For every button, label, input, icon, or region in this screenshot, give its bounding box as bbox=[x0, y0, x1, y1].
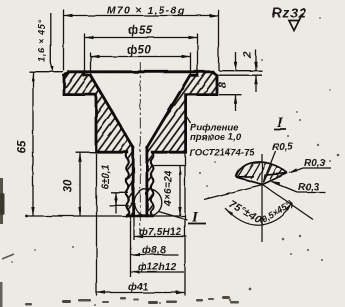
svg-text:ф12h12: ф12h12 bbox=[138, 261, 177, 273]
svg-text:R0,3: R0,3 bbox=[298, 182, 320, 193]
svg-text:ф55: ф55 bbox=[128, 25, 153, 37]
svg-text:ф8,8: ф8,8 bbox=[142, 244, 166, 256]
svg-text:R0,5: R0,5 bbox=[272, 142, 294, 153]
svg-text:прямое 1,0: прямое 1,0 bbox=[190, 132, 242, 143]
svg-text:I: I bbox=[276, 115, 284, 131]
svg-text:Rz32: Rz32 bbox=[272, 6, 307, 21]
svg-text:ГОСТ21474-75: ГОСТ21474-75 bbox=[189, 148, 255, 159]
svg-text:R0,3: R0,3 bbox=[304, 158, 326, 169]
svg-text:ф50: ф50 bbox=[127, 45, 152, 57]
svg-text:M70 × 1,5-8g: M70 × 1,5-8g bbox=[107, 5, 185, 17]
svg-text:30: 30 bbox=[63, 179, 75, 192]
svg-text:ф41: ф41 bbox=[128, 281, 148, 293]
svg-text:4×6=24: 4×6=24 bbox=[163, 170, 174, 207]
svg-text:65: 65 bbox=[17, 140, 29, 153]
svg-text:8: 8 bbox=[217, 81, 229, 88]
svg-text:ф7,5H12: ф7,5H12 bbox=[139, 226, 182, 238]
svg-text:2: 2 bbox=[242, 52, 254, 59]
svg-text:6±0,1: 6±0,1 bbox=[101, 164, 112, 189]
svg-text:1,6 × 45°: 1,6 × 45° bbox=[37, 19, 47, 62]
